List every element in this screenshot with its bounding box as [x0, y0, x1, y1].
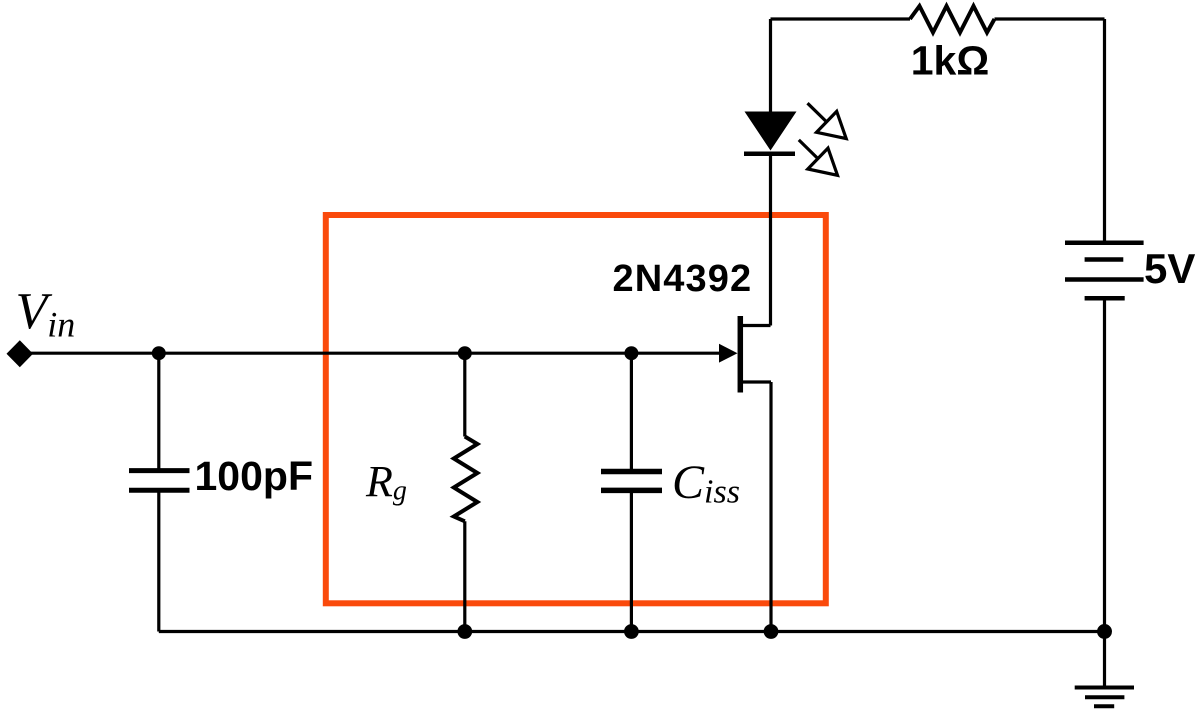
wire top rail left [771, 17, 911, 20]
wire to capacitor C1 [157, 353, 160, 470]
wire right vertical to battery [1103, 19, 1106, 241]
wire anode from top rail to LED [769, 19, 772, 112]
resistor R1 1kOhm [910, 6, 995, 33]
svg-text:2N4392: 2N4392 [613, 258, 753, 300]
node junction dot gate Ciss [624, 346, 638, 360]
wire LED cathode to JFET drain [769, 154, 772, 326]
LED light arrow 2 [799, 140, 838, 175]
wire gate to Rg [463, 353, 466, 436]
node junction dot gate Rg [458, 346, 472, 360]
ground bar 1 [1075, 686, 1134, 690]
battery B1 plate long top [1065, 240, 1144, 245]
battery B1 plate short 1 [1085, 257, 1124, 262]
capacitor Ciss top plate [601, 469, 662, 475]
svg-text:100pF: 100pF [195, 453, 314, 499]
wire to ground symbol [1103, 632, 1106, 688]
ground bar 2 [1085, 695, 1124, 699]
capacitor Ciss bottom plate [601, 488, 662, 494]
resistor Rg zigzag [454, 437, 478, 522]
LED light arrow 1 [808, 103, 847, 138]
node junction dot rail Rg [457, 624, 472, 639]
transistor Q1 JFET channel bar [738, 316, 744, 393]
node junction dot input [152, 346, 166, 360]
node Vin input diamond [7, 340, 34, 367]
ground bar 3 [1094, 704, 1114, 708]
wire top rail right [995, 17, 1105, 20]
LED D1 triangle [745, 112, 797, 151]
wire JFET source to ground rail [769, 382, 772, 632]
LED D1 cathode bar [744, 152, 795, 157]
wire Ciss to ground rail [630, 490, 633, 631]
svg-text:Rg: Rg [365, 457, 407, 507]
capacitor C1 100pF top plate [129, 468, 190, 473]
battery B1 plate long bottom [1065, 277, 1144, 282]
transistor Q1 gate arrow [719, 344, 738, 363]
node junction dot rail source [764, 624, 779, 639]
transistor Q1 drain lead [741, 324, 771, 327]
wire ground rail [159, 630, 1105, 633]
svg-text:Vin: Vin [16, 283, 76, 344]
wire capacitor C1 to ground rail [157, 490, 160, 631]
node junction dot rail battery [1097, 624, 1112, 639]
wire gate to Ciss [630, 353, 633, 471]
battery B1 plate short 2 [1085, 296, 1125, 301]
node junction dot rail Ciss [624, 624, 639, 639]
svg-text:Ciss: Ciss [672, 456, 740, 511]
wire battery to ground rail [1103, 298, 1106, 631]
wire Rg to ground rail [463, 521, 466, 631]
svg-text:5V: 5V [1144, 245, 1195, 292]
svg-text:1kΩ: 1kΩ [911, 38, 989, 84]
capacitor C1 100pF bottom plate [129, 488, 190, 493]
orange highlight box [326, 215, 826, 603]
transistor Q1 source lead [741, 380, 771, 383]
wire gate rail [20, 352, 722, 355]
